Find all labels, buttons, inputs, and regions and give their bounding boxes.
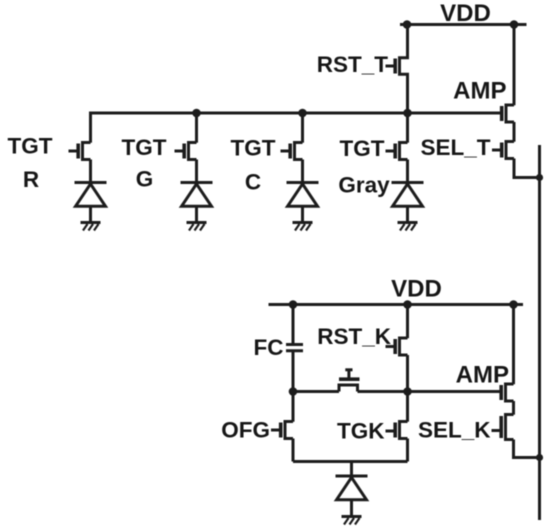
wire TGK source down to PD_K wire [406, 439, 409, 462]
transistor OFG [271, 422, 293, 439]
label RST_K [317, 324, 392, 349]
label G [136, 167, 154, 192]
photodiode PD K [336, 476, 368, 517]
node junction dot FD at TGT G [192, 109, 201, 118]
capacitor FC [286, 345, 303, 351]
wire RST_T source down to FD node [406, 74, 409, 113]
photodiode PD R [75, 183, 107, 223]
wire FD bus (TGT R drain corner to AMP gate) [91, 113, 502, 143]
svg-text:FC: FC [254, 335, 284, 360]
wire top VDD rail [400, 23, 527, 26]
wire TGT Gray source to photodiode [406, 160, 409, 183]
label SEL_K [418, 418, 491, 443]
transistor DCG switch (horizontal, gate up) [339, 370, 360, 392]
label TGK [337, 419, 385, 444]
node junction dot FD_K [403, 387, 412, 396]
label C [245, 170, 261, 195]
transistor TGK [386, 422, 408, 439]
label RST_T [317, 52, 389, 77]
transistor AMP_T (source follower, top pixel) [502, 105, 514, 122]
wire TGK drain from FD_K node [406, 392, 409, 422]
svg-text:RST_K: RST_K [317, 324, 392, 349]
node junction dot FD at RST_T / TGT Gray [403, 109, 412, 118]
label TGT (Gray) [340, 136, 385, 161]
svg-text:TGT: TGT [122, 135, 167, 160]
svg-text:G: G [136, 167, 154, 192]
ground (PD Gray) [398, 223, 418, 231]
label VDD (bottom rail) [391, 276, 442, 303]
photodiode PD Gray [392, 183, 424, 223]
wire AMP_K source to SEL_K drain [512, 401, 515, 415]
label SEL_T [420, 135, 490, 160]
svg-text:Gray: Gray [338, 173, 390, 198]
label VDD (top rail) [440, 0, 491, 27]
ground (PD K) [342, 517, 362, 525]
wire node row left (FC to DCG) [293, 390, 339, 393]
wire AMP_T drain from VDD [513, 25, 516, 106]
wire TGT R source to photodiode [89, 160, 92, 183]
svg-text:VDD: VDD [440, 0, 491, 27]
node junction dot bottom VDD mid (RST_K drain) [403, 300, 412, 309]
ground (PD R) [81, 223, 101, 231]
label R [23, 167, 39, 192]
label TGT (G) [122, 135, 167, 160]
svg-text:R: R [23, 167, 39, 192]
svg-text:TGT: TGT [8, 134, 53, 159]
wire RST_K source to FD node [406, 355, 409, 392]
svg-text:AMP: AMP [456, 362, 509, 389]
node junction dot bottom VDD right (AMP drain) [509, 300, 518, 309]
wire PD_K horizontal (OFG source to TGK source) [293, 460, 408, 463]
node junction dot FD at TGT C [298, 109, 307, 118]
label OFG [221, 418, 270, 443]
label FC [254, 335, 284, 360]
wire column output line [538, 145, 541, 520]
svg-text:OFG: OFG [221, 418, 270, 443]
svg-text:RST_T: RST_T [317, 52, 389, 77]
svg-text:TGT: TGT [340, 136, 385, 161]
wire OFG source down to PD_K wire [292, 439, 295, 462]
wire SEL_K source to column line [514, 440, 540, 458]
svg-text:TGK: TGK [337, 419, 385, 444]
wire TGT C source to photodiode [301, 160, 304, 183]
wire TGT G source to photodiode [195, 160, 198, 183]
svg-text:SEL_K: SEL_K [418, 418, 491, 443]
transistor SEL_K [492, 415, 514, 440]
transistor TGT R [69, 113, 91, 160]
label TGT (R) [8, 134, 53, 159]
transistor TGT C [281, 113, 303, 160]
svg-text:TGT: TGT [231, 136, 276, 161]
node junction dot column bottom [536, 454, 543, 461]
svg-text:C: C [245, 170, 261, 195]
wire AMP_T source to SEL_T drain [513, 122, 516, 142]
label AMP (top) [453, 78, 506, 105]
photodiode PD C [287, 183, 319, 223]
wire node row right (DCG to AMP_K gate) [358, 390, 502, 393]
wire FC bottom lead to node / OFG drain [292, 351, 295, 422]
wire AMP_K drain from VDD [512, 305, 515, 385]
transistor TGT G [175, 113, 197, 160]
wire PD_K anode lead [350, 462, 353, 477]
wire SEL_T source to column line [514, 159, 540, 178]
label Gray [338, 173, 390, 198]
svg-text:AMP: AMP [453, 78, 506, 105]
node junction dot bottom VDD left (FC) [289, 300, 298, 309]
svg-text:VDD: VDD [391, 276, 442, 303]
svg-text:SEL_T: SEL_T [420, 135, 490, 160]
photodiode PD G [181, 183, 213, 223]
wire RST_T drain from VDD [406, 25, 409, 58]
transistor RST_T [386, 58, 408, 75]
ground (PD C) [293, 223, 313, 231]
label AMP (bottom) [456, 362, 509, 389]
node junction dot VDD left (RST_T drain) [403, 20, 412, 29]
label TGT (C) [231, 136, 276, 161]
ground (PD G) [187, 223, 207, 231]
transistor TGT Gray [386, 113, 408, 160]
wire bottom VDD rail [269, 303, 524, 306]
wire FC top lead [292, 305, 295, 345]
node junction dot column top [536, 174, 543, 181]
wire RST_K drain from VDD [406, 305, 409, 339]
node junction dot FC node [289, 387, 298, 396]
transistor AMP_K (source follower, bottom pixel) [501, 384, 513, 401]
transistor RST_K [386, 338, 408, 355]
node junction dot VDD right (AMP drain) [510, 20, 519, 29]
transistor SEL_T [492, 142, 514, 159]
